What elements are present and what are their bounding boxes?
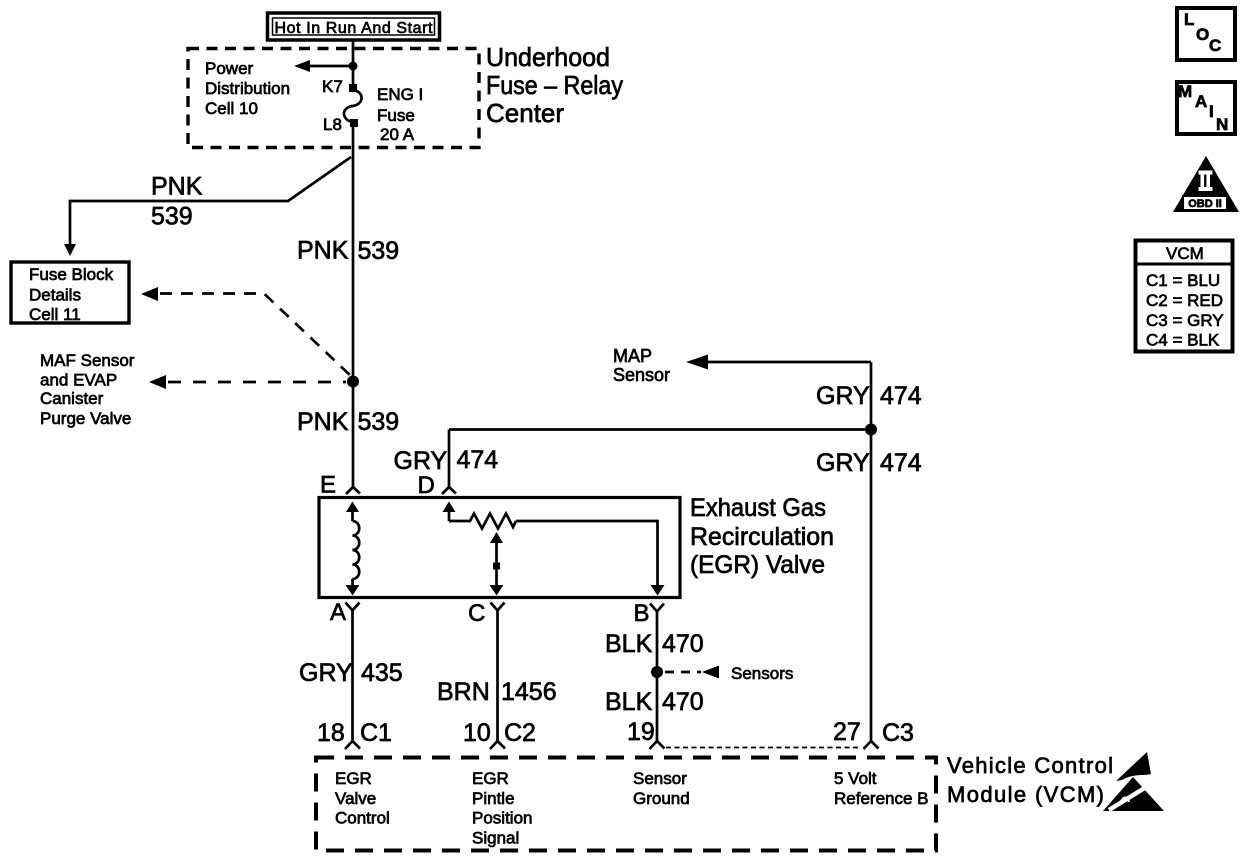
- svg-text:OBD II: OBD II: [1188, 198, 1222, 210]
- title: Vehicle Control Module (VCM): [947, 753, 1113, 807]
- terminal B: [634, 600, 665, 627]
- label PNK 539 (lower run): [297, 408, 399, 436]
- svg-text:VCM: VCM: [1166, 244, 1204, 263]
- junction dot sensors tap: [651, 666, 663, 678]
- svg-text:Underhood: Underhood: [486, 42, 610, 72]
- dashed arrow to Sensors: [665, 664, 793, 683]
- arrow wire to MAP sensor: [686, 355, 871, 370]
- svg-text:Sensor: Sensor: [613, 365, 670, 385]
- terminal E: [320, 472, 360, 499]
- potentiometer resistor (D to B): [443, 502, 665, 596]
- label BLK 470 (upper): [605, 630, 704, 658]
- svg-text:435: 435: [361, 659, 403, 687]
- wire B BLK 470: [656, 612, 659, 742]
- svg-text:Sensor: Sensor: [633, 769, 687, 788]
- fuse block details box: [11, 262, 129, 324]
- wire A GRY 435: [351, 611, 354, 742]
- label GRY 474 (lower right): [816, 449, 922, 477]
- label PNK 539 (branch): [151, 173, 203, 231]
- text: EGR Valve Control: [335, 769, 390, 828]
- svg-text:27: 27: [833, 718, 861, 746]
- svg-text:Purge Valve: Purge Valve: [40, 409, 131, 428]
- dashed arrow to MAF sensor branch: [149, 375, 346, 389]
- svg-text:D: D: [418, 472, 435, 499]
- label box: Hot In Run And Start: [268, 13, 440, 40]
- wiper arm (to C): [490, 532, 504, 596]
- svg-text:474: 474: [880, 449, 922, 477]
- svg-text:Vehicle Control: Vehicle Control: [947, 753, 1113, 778]
- icon LOC box: [1177, 8, 1235, 60]
- svg-text:18: 18: [317, 719, 345, 747]
- svg-text:B: B: [634, 600, 650, 627]
- ESD symbol triangle: [1103, 777, 1164, 811]
- svg-text:MAF Sensor: MAF Sensor: [40, 351, 135, 370]
- svg-text:539: 539: [358, 408, 400, 436]
- svg-text:C1: C1: [360, 719, 392, 747]
- text: Power Distribution Cell 10: [205, 59, 290, 118]
- svg-text:Signal: Signal: [472, 829, 519, 848]
- svg-text:474: 474: [457, 446, 499, 474]
- VCM pin 19: [627, 718, 665, 749]
- svg-text:BLK: BLK: [605, 630, 653, 658]
- label L8: [323, 115, 342, 134]
- text: 5 Volt Reference B: [834, 769, 929, 808]
- branch wire PNK to fuse block: [64, 157, 351, 256]
- svg-text:5 Volt: 5 Volt: [834, 769, 877, 788]
- svg-text:N: N: [1216, 115, 1228, 134]
- label PNK 539 (upper run): [297, 237, 399, 266]
- icon MAIN box: [1177, 82, 1235, 134]
- wire D drop: [448, 430, 451, 488]
- label K7: [322, 77, 343, 96]
- svg-text:E: E: [320, 472, 336, 499]
- svg-text:and EVAP: and EVAP: [40, 371, 117, 390]
- svg-text:470: 470: [662, 688, 704, 716]
- svg-text:Module (VCM): Module (VCM): [947, 782, 1104, 807]
- svg-text:Recirculation: Recirculation: [690, 523, 834, 551]
- VCM pin 27 C3: [833, 718, 914, 749]
- solenoid coil (E to A): [346, 502, 360, 596]
- title: Underhood Fuse - Relay Center: [486, 42, 623, 128]
- label GRY 435: [299, 659, 403, 687]
- wire GRY 474 right vertical: [870, 362, 873, 741]
- svg-text:C: C: [1209, 36, 1221, 55]
- ESD triangle upper: [1116, 752, 1151, 781]
- label BRN 1456: [437, 678, 557, 706]
- main wire PNK 539 down to EGR terminal E: [352, 124, 355, 487]
- svg-text:I: I: [1209, 102, 1214, 121]
- text: MAP Sensor: [613, 346, 670, 385]
- svg-text:C3 = GRY: C3 = GRY: [1146, 311, 1224, 330]
- svg-text:EGR: EGR: [335, 769, 372, 788]
- svg-text:Position: Position: [472, 809, 532, 828]
- svg-text:PNK: PNK: [297, 237, 349, 265]
- svg-text:M: M: [1178, 82, 1192, 101]
- text: EGR Pintle Position Signal: [472, 769, 532, 848]
- svg-text:Fuse – Relay: Fuse – Relay: [486, 70, 623, 100]
- dashed arrow to fuse block: [141, 287, 352, 377]
- svg-text:(EGR) Valve: (EGR) Valve: [690, 551, 825, 579]
- svg-text:C2 = RED: C2 = RED: [1146, 291, 1223, 310]
- junction dot on GRY wire: [865, 424, 877, 436]
- svg-text:C3: C3: [882, 719, 914, 747]
- svg-text:PNK: PNK: [297, 408, 349, 436]
- arrow to power distribution: [294, 60, 353, 72]
- junction dot at fuse feed: [349, 62, 358, 71]
- svg-text:L8: L8: [323, 115, 342, 134]
- VCM pin 10 C2: [463, 719, 536, 749]
- icon OBD II triangle: [1173, 156, 1239, 212]
- text: Sensor Ground: [633, 769, 690, 808]
- svg-text:Cell 11: Cell 11: [29, 305, 81, 324]
- svg-text:C1 = BLU: C1 = BLU: [1146, 271, 1220, 290]
- svg-text:BRN: BRN: [437, 678, 490, 706]
- svg-text:C: C: [468, 600, 485, 627]
- svg-text:470: 470: [662, 630, 704, 658]
- svg-text:A: A: [1195, 92, 1207, 111]
- wire GRY horizontal to D: [449, 428, 871, 431]
- label BLK 470 (lower): [605, 688, 704, 716]
- svg-text:Ground: Ground: [633, 789, 690, 808]
- svg-text:Power: Power: [205, 59, 254, 78]
- terminal D: [418, 472, 457, 499]
- svg-text:Control: Control: [335, 809, 390, 828]
- svg-text:Fuse: Fuse: [377, 106, 415, 125]
- svg-text:19: 19: [627, 718, 655, 746]
- svg-text:1456: 1456: [501, 678, 557, 706]
- icon VCM connector table: [1135, 241, 1233, 352]
- svg-text:Exhaust Gas: Exhaust Gas: [690, 494, 826, 522]
- svg-text:539: 539: [358, 237, 400, 265]
- terminal C: [468, 600, 505, 627]
- svg-text:Cell 10: Cell 10: [205, 99, 258, 118]
- junction dot on main PNK wire: [347, 376, 359, 388]
- svg-text:GRY: GRY: [816, 382, 870, 410]
- svg-text:GRY: GRY: [816, 449, 870, 477]
- svg-text:Center: Center: [486, 98, 564, 128]
- svg-text:L: L: [1184, 10, 1194, 29]
- svg-text:GRY: GRY: [394, 447, 448, 475]
- svg-text:539: 539: [151, 203, 193, 231]
- svg-text:MAP: MAP: [613, 346, 652, 366]
- terminal A: [330, 599, 360, 626]
- svg-text:ENG I: ENG I: [377, 85, 423, 104]
- svg-text:PNK: PNK: [151, 173, 203, 201]
- VCM dashed box: [316, 758, 936, 851]
- text: ENG I Fuse 20 A: [377, 85, 423, 144]
- label GRY 474 (at D): [394, 446, 499, 475]
- svg-text:Canister: Canister: [40, 389, 104, 408]
- svg-text:EGR: EGR: [472, 769, 509, 788]
- text: MAF Sensor and EVAP Canister Purge Valve: [40, 351, 135, 428]
- svg-text:20 A: 20 A: [380, 125, 415, 144]
- fuse ENG I 20A: [344, 84, 362, 127]
- title: Exhaust Gas Recirculation (EGR) Valve: [690, 494, 834, 579]
- svg-text:10: 10: [463, 719, 491, 747]
- svg-text:474: 474: [880, 382, 922, 410]
- wire C BRN 1456: [496, 611, 499, 742]
- VCM pin 18 C1: [317, 719, 392, 749]
- label GRY 474 (upper right): [816, 382, 922, 410]
- svg-text:Reference B: Reference B: [834, 789, 929, 808]
- svg-text:Distribution: Distribution: [205, 79, 290, 98]
- wire: feed from Hot label into fuse: [352, 40, 355, 88]
- svg-text:Sensors: Sensors: [731, 664, 793, 683]
- EGR valve box: [319, 498, 680, 598]
- svg-text:C4 = BLK: C4 = BLK: [1146, 331, 1220, 350]
- svg-text:Details: Details: [29, 286, 81, 305]
- svg-text:Fuse Block: Fuse Block: [29, 265, 114, 284]
- svg-text:A: A: [330, 599, 346, 626]
- svg-text:C2: C2: [504, 719, 536, 747]
- svg-text:Hot In Run And Start: Hot In Run And Start: [275, 20, 434, 37]
- svg-text:K7: K7: [322, 77, 343, 96]
- svg-text:O: O: [1196, 25, 1209, 44]
- svg-text:Pintle: Pintle: [472, 789, 515, 808]
- underhood fuse-relay center dashed box: [188, 49, 479, 148]
- svg-text:Valve: Valve: [335, 789, 376, 808]
- dashed link pin19 to pin27: [666, 747, 858, 749]
- svg-text:GRY: GRY: [299, 659, 353, 687]
- svg-text:BLK: BLK: [605, 688, 653, 716]
